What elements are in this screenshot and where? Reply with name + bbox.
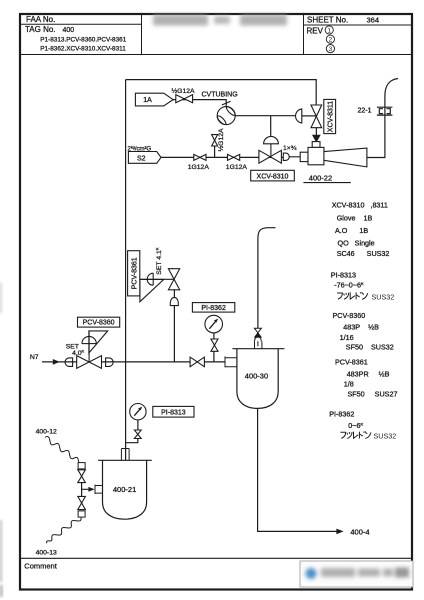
svg-text:-76~0~6K: -76~0~6K: [334, 280, 364, 289]
svg-text:1: 1: [327, 27, 331, 34]
svg-text:SC46 SUS32: SC46 SUS32: [337, 249, 390, 258]
svg-text:CVTUBING: CVTUBING: [202, 92, 238, 99]
svg-text:400: 400: [63, 27, 75, 34]
svg-text:1G12A: 1G12A: [226, 164, 248, 171]
svg-text:SF50 SUS27: SF50 SUS27: [348, 389, 398, 398]
svg-text:½G12A: ½G12A: [217, 128, 225, 152]
svg-text:400-12: 400-12: [36, 429, 57, 436]
svg-text:PCV-8361: PCV-8361: [131, 257, 138, 289]
svg-text:PCV-8360: PCV-8360: [83, 320, 115, 327]
svg-text:½G12A: ½G12A: [172, 87, 196, 95]
svg-text:SUS32: SUS32: [374, 432, 397, 441]
svg-text:400-21: 400-21: [113, 485, 136, 494]
svg-text:XCV-8311: XCV-8311: [327, 101, 334, 132]
svg-text:P1-8362.XCV-8310.XCV-8311: P1-8362.XCV-8310.XCV-8311: [40, 46, 126, 53]
svg-text:4.0K: 4.0K: [72, 349, 84, 358]
svg-text:1/16: 1/16: [340, 333, 354, 342]
svg-text:1A: 1A: [143, 97, 152, 104]
svg-text:SUS32: SUS32: [372, 293, 395, 302]
svg-text:364: 364: [367, 15, 380, 24]
svg-text:400-13: 400-13: [36, 550, 57, 557]
svg-text:2: 2: [329, 37, 333, 44]
svg-text:P1-8313.PCV-8360.PCV-8361: P1-8313.PCV-8360.PCV-8361: [40, 37, 126, 44]
svg-text:REV: REV: [307, 26, 324, 35]
svg-text:400-22: 400-22: [309, 173, 332, 182]
svg-text:A.O 1B: A.O 1B: [335, 226, 368, 235]
svg-text:483PR ½B: 483PR ½B: [347, 369, 390, 378]
svg-text:PI-8313: PI-8313: [331, 270, 356, 279]
svg-text:400-30: 400-30: [245, 371, 268, 380]
svg-text:N7: N7: [30, 354, 39, 361]
svg-text:1×¾: 1×¾: [283, 145, 297, 152]
svg-text:PCV-8361: PCV-8361: [335, 357, 368, 366]
svg-text:1G12A: 1G12A: [188, 164, 210, 171]
svg-text:PI-8313: PI-8313: [161, 409, 186, 416]
svg-text:QO Single: QO Single: [338, 238, 375, 247]
svg-text:XCV-8310 ,8311: XCV-8310 ,8311: [332, 201, 388, 210]
svg-text:PI-8362: PI-8362: [329, 409, 354, 418]
svg-text:SET 4.1K: SET 4.1K: [154, 247, 163, 274]
svg-text:SF50 SUS32: SF50 SUS32: [346, 343, 394, 352]
svg-text:FAA No.: FAA No.: [26, 15, 55, 24]
svg-text:XCV-8310: XCV-8310: [257, 173, 289, 180]
svg-text:400-4: 400-4: [350, 528, 369, 537]
svg-text:Glove 1B: Glove 1B: [337, 214, 373, 223]
svg-text:22-1: 22-1: [358, 108, 372, 115]
svg-text:PI-8362: PI-8362: [201, 305, 226, 312]
svg-text:3: 3: [329, 46, 333, 53]
svg-text:0~6K: 0~6K: [348, 421, 363, 430]
svg-text:SHEET No.: SHEET No.: [307, 15, 348, 24]
svg-text:Comment: Comment: [24, 562, 57, 571]
svg-text:483P ½B: 483P ½B: [343, 323, 379, 332]
svg-text:PCV-8360: PCV-8360: [333, 311, 366, 320]
svg-text:TAG No.: TAG No.: [25, 25, 56, 34]
svg-text:S2: S2: [137, 156, 146, 163]
svg-text:1/8: 1/8: [344, 379, 354, 388]
